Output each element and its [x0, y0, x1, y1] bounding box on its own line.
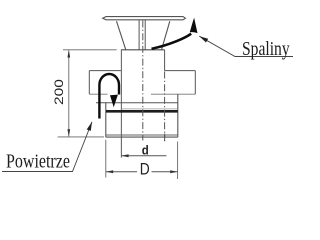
svg-text:Powietrze: Powietrze	[6, 150, 70, 172]
svg-text:D: D	[140, 161, 150, 179]
svg-text:200: 200	[52, 79, 66, 105]
svg-text:Spaliny: Spaliny	[242, 37, 290, 59]
svg-text:d: d	[142, 143, 149, 158]
